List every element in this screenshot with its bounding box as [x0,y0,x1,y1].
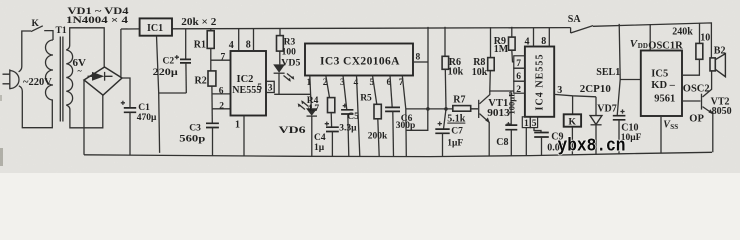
amplifier IC3 CX20106A [305,44,413,76]
diode VD7 [590,97,602,155]
resistor R2 [208,71,216,123]
switch K [31,26,53,40]
scan smudge left edge [0,95,2,101]
svg-text:ybx8.cn: ybx8.cn [558,137,626,157]
wire IC2 pin1 to ground [243,116,245,156]
timer IC4 NE555 [525,47,554,117]
wire IC3 pin1 [310,76,312,109]
bridge diode symbol [88,72,113,81]
wire bridge minus down to ground [83,80,85,155]
wire IC3 pin8 stub [413,61,428,63]
ground rail [84,152,712,156]
wire output loop [406,109,428,130]
wire VDD pin drop [649,24,651,50]
power plug P [3,69,20,89]
scan smudge bottom-left [0,148,3,166]
speaker B2 [710,54,725,77]
resistor R8 [488,27,514,91]
wire plug top to switch [19,31,31,72]
resistor R1 [207,29,214,71]
wire IC2 pin8 drop [253,29,255,51]
label IC3 pin numbers [307,78,404,88]
transformer T1 core [60,37,63,122]
top rail left of SA [121,28,571,29]
transistor VT1 [471,91,490,156]
capacitor C7 [435,109,449,157]
resistor R4 [328,98,335,127]
wire Vss to ground [660,116,662,153]
LED VD6 [298,100,318,156]
IC4 bottom cells 1 5 [522,117,537,129]
LED VD5 [273,64,294,94]
capacitor C1 [121,101,136,155]
op-amp timer IC2 NE555 [231,51,267,116]
wire IC3 pin4 to ground [357,76,360,157]
wire IC3 pin3 [343,76,347,110]
wire bridge to C1 [122,78,130,108]
IC4 pin cells 7 6 2 [514,56,525,95]
wire SEL1 stub [620,79,641,81]
capacitor C2 [175,29,191,93]
capacitor C6 [385,107,400,156]
wire bridge plus up to rail [120,29,122,78]
wire IC3 pin5 [373,76,377,105]
voltage regulator IC1 [140,18,172,35]
capacitor C8 [505,91,517,156]
transistor VT2 [702,71,714,152]
top rail right of SA [593,23,711,58]
IC2 pin3 cell [266,81,274,93]
transformer T1 primary winding [46,40,53,100]
capacitor C4 [325,122,339,157]
wire IC4 pin1 to ground [525,128,527,156]
wire rail drop through pin8 to output node [427,27,429,109]
wire secondary bottom to bridge [66,95,103,128]
switch SA [571,26,593,33]
resistor R5 [374,104,381,156]
relay K [564,96,581,155]
wire IC3 pin6 [390,76,392,108]
wire IC4 pin4 drop [533,28,535,47]
bridge rectifier VD1-VD4 diamond [84,67,122,95]
wire IC2 pin4 drop [238,29,240,51]
wire IC4 pin5 to C9 [534,128,541,133]
capacitor C5 [341,104,353,157]
wire IC2 pin2 stub [212,108,230,110]
resistor R9 [509,27,516,62]
wire IC2 pin3 to IC3 pin1 [274,93,310,95]
wire IC3 pin7 output [402,76,406,157]
wire IC1 ground drop [157,36,160,153]
wire secondary top to bridge [66,28,104,67]
resistor R6 [442,27,449,111]
paper grain [0,0,740,173]
capacitor C9 [534,133,549,156]
wire IC4 pin3 output [554,94,596,96]
wire OP to VT2 base [682,100,701,102]
capacitor C3 [206,123,219,156]
wire IC2 pin6 stub [212,93,231,95]
wire plug bottom to transformer primary [19,86,53,128]
capacitor C10 [613,109,626,153]
wire IC3 pin2 [326,76,330,98]
resistor R3 [277,29,284,65]
sound chip IC5 KD-9561 [641,51,682,117]
wire C2 to IC1 ground [159,92,187,94]
resistor R7 [453,106,471,112]
wire IC2 pin7 stub [211,59,231,61]
resistor 240k [682,23,703,75]
wire VDD line with SEL1 [617,24,620,116]
wire IC4 pin8 drop [548,28,550,47]
transformer T1 secondary winding [66,50,72,105]
